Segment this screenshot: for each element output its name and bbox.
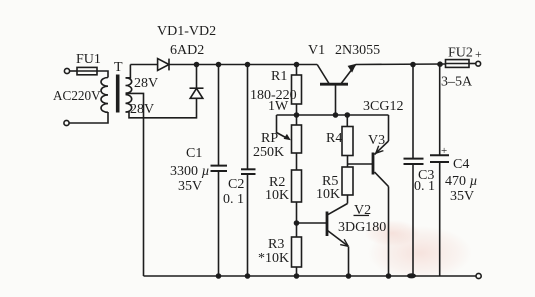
label V3 [368, 133, 385, 148]
node C3 top [410, 62, 416, 68]
wire fuse to transformer primary [97, 71, 108, 78]
node R1 bottom junction [294, 112, 300, 118]
svg-text:35V: 35V [450, 189, 474, 204]
svg-text:6AD2: 6AD2 [170, 43, 204, 58]
svg-text:V3: V3 [368, 133, 385, 148]
label 470u [445, 174, 478, 189]
transformer T primary winding [101, 78, 108, 113]
node R3 bottom [294, 273, 300, 279]
label R2 10K [265, 188, 289, 203]
resistor R1 [292, 65, 302, 126]
svg-text:FU1: FU1 [76, 52, 101, 67]
resistor R2 [292, 170, 302, 237]
svg-text:VD1-VD2: VD1-VD2 [157, 24, 216, 39]
transformer T secondary winding upper 28V [126, 78, 132, 93]
svg-text:*10K: *10K [258, 251, 289, 266]
capacitor C1 [211, 65, 228, 277]
label C3 [418, 168, 434, 183]
label FU2 [448, 46, 473, 61]
wire input bottom to transformer primary [69, 112, 108, 123]
label 180-220 [250, 88, 297, 103]
svg-text:3–5A: 3–5A [441, 75, 473, 90]
resistor R3 [292, 237, 302, 276]
label VD1-VD2 [157, 24, 216, 39]
label 3300u [170, 164, 210, 179]
label 3DG180 [338, 220, 386, 235]
svg-text:R4: R4 [326, 131, 342, 146]
output terminal top [476, 61, 481, 66]
ground rail [144, 275, 477, 277]
input terminal top [64, 68, 69, 73]
svg-text:+: + [475, 47, 482, 61]
diode VD1 [158, 59, 169, 71]
svg-text:3CG12: 3CG12 [363, 99, 403, 114]
capacitor C2 [241, 65, 256, 277]
wire input top to fuse [70, 70, 77, 72]
resistor R4 [342, 115, 353, 167]
input terminal bottom [64, 120, 69, 125]
output terminal bottom [476, 273, 481, 278]
potentiometer RP [277, 115, 302, 170]
svg-text:0. 1: 0. 1 [414, 179, 435, 194]
label R2 [269, 175, 285, 190]
wire secondary top lead to top rail [126, 65, 131, 78]
label C3 0.1 [414, 179, 435, 194]
fuse FU2 [446, 60, 477, 68]
label 2N3055 [335, 43, 380, 58]
label output plus [475, 47, 482, 61]
node C3 bottom [407, 273, 416, 278]
svg-text:35V: 35V [178, 179, 202, 194]
svg-text:RP: RP [261, 131, 278, 146]
svg-text:10K: 10K [316, 187, 340, 202]
svg-text:3DG180: 3DG180 [338, 220, 386, 235]
capacitor C3 [404, 65, 424, 277]
svg-text:C4: C4 [453, 157, 469, 172]
svg-text:V1: V1 [308, 43, 325, 58]
node C1 top [216, 62, 222, 68]
wire center tap to ground rail [126, 93, 144, 276]
label C1 [186, 146, 202, 161]
svg-text:250K: 250K [253, 145, 284, 160]
svg-text:0. 1: 0. 1 [223, 192, 244, 207]
wire top rail VD1 to V1 collector [169, 64, 317, 66]
label V1 [308, 43, 325, 58]
svg-text:T: T [114, 60, 123, 75]
node R2 R3 junction [294, 220, 300, 226]
svg-text:FU2: FU2 [448, 46, 473, 61]
wire top rail left segment [130, 64, 157, 66]
svg-text:C1: C1 [186, 146, 202, 161]
svg-text:470 µ: 470 µ [445, 174, 478, 189]
label C2 0.1 [223, 192, 244, 207]
label 6AD2 [170, 43, 204, 58]
wire top rail V1 emitter to FU2 [356, 63, 446, 66]
svg-text:+: + [441, 145, 447, 157]
svg-text:C2: C2 [228, 177, 244, 192]
transistor V2 [297, 204, 349, 277]
resistor R5 [342, 167, 353, 204]
node V1 base [333, 112, 339, 118]
wire secondary bottom lead to VD2 anode [126, 98, 197, 118]
svg-text:R1: R1 [271, 69, 287, 84]
node VD2 top rail [194, 62, 200, 68]
node V3 collector bottom [386, 273, 392, 279]
label R3 [268, 237, 284, 252]
label C4 35V [450, 189, 474, 204]
svg-text:1W: 1W [268, 99, 289, 114]
label AC220V [53, 88, 101, 103]
node C1 bottom [216, 273, 222, 279]
transformer T core [116, 75, 120, 113]
svg-text:R3: R3 [268, 237, 284, 252]
label C4 [453, 157, 469, 172]
label V2 [354, 203, 372, 218]
transformer T secondary winding lower 28V [126, 95, 132, 112]
svg-text:3300 µ: 3300 µ [170, 164, 210, 179]
node C4 top [437, 61, 443, 67]
label 1W [268, 99, 289, 114]
svg-text:28V: 28V [130, 102, 154, 117]
label R4 [326, 131, 342, 146]
node R4 top [345, 112, 351, 118]
svg-text:28V: 28V [134, 76, 158, 91]
label C2 [228, 177, 244, 192]
label FU1 [76, 52, 101, 67]
svg-text:10K: 10K [265, 188, 289, 203]
label 250K [253, 145, 284, 160]
label T [114, 60, 123, 75]
transistor V1 [317, 64, 356, 115]
label 3-5A [441, 75, 473, 90]
svg-text:AC220V: AC220V [53, 88, 101, 103]
label *10K [258, 251, 289, 266]
label 35V [178, 179, 202, 194]
label R1 [271, 69, 287, 84]
label R5 10K [316, 187, 340, 202]
svg-text:2N3055: 2N3055 [335, 43, 380, 58]
capacitor C4 [430, 65, 449, 277]
label 3CG12 [363, 99, 403, 114]
label 28V lower [130, 102, 154, 117]
node C2 bottom [245, 273, 251, 279]
transistor V3 [348, 115, 389, 276]
node R1 top [294, 62, 300, 68]
node C2 top [245, 62, 251, 68]
node V2 emitter bottom [346, 273, 352, 279]
fuse FU1 [77, 67, 97, 74]
label RP [261, 131, 278, 146]
diode VD2 [190, 65, 204, 99]
label R5 [322, 174, 338, 189]
label C4 plus [441, 145, 447, 157]
wire base bus [277, 114, 389, 116]
label 28V upper [134, 76, 158, 91]
